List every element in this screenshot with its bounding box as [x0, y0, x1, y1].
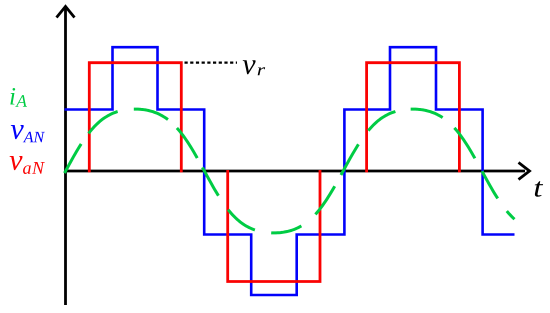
dotted callout line to vr	[185, 61, 238, 63]
label iA	[10, 88, 27, 107]
label vr	[243, 60, 265, 75]
waveform vaN positive pulse 2 (red)	[367, 63, 460, 173]
waveform vaN positive pulse 1 (red)	[89, 63, 181, 173]
y axis	[57, 7, 75, 306]
waveform vaN negative pulse (red)	[228, 170, 320, 282]
waveform vAN (blue staircase)	[65, 47, 515, 295]
label vaN	[10, 156, 45, 174]
label vAN	[11, 125, 45, 142]
t axis	[64, 163, 530, 180]
label t	[535, 181, 543, 196]
waveform iA (green dashed sine)	[65, 109, 515, 233]
